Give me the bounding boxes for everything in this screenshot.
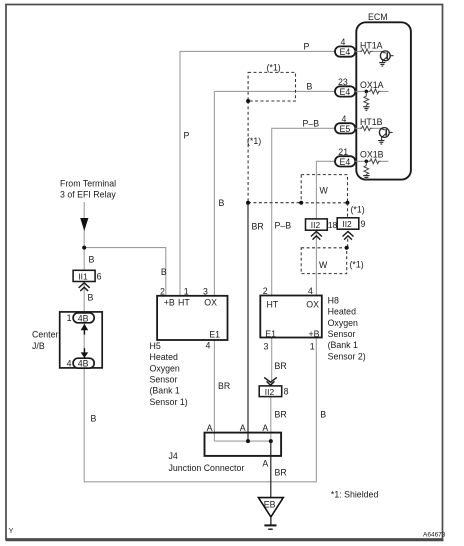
svg-text:HT1B: HT1B <box>360 117 383 127</box>
svg-text:Y: Y <box>9 526 14 535</box>
connector symbol II1 (chevrons) <box>79 283 90 291</box>
shield box W upper <box>301 175 347 203</box>
svg-text:From Terminal: From Terminal <box>60 178 116 188</box>
svg-text:Sensor: Sensor <box>150 375 178 385</box>
transistor (HT1B driver) <box>379 128 392 141</box>
svg-text:BR: BR <box>275 361 287 371</box>
svg-text:Center: Center <box>32 329 58 339</box>
connector symbol II2-8 (chevrons, pointing down) <box>264 377 277 385</box>
node shield W upper right <box>346 201 350 205</box>
svg-text:+B: +B <box>164 298 175 308</box>
svg-text:B: B <box>88 292 94 302</box>
svg-text:EB: EB <box>264 500 276 510</box>
svg-text:B: B <box>89 254 95 264</box>
svg-text:A: A <box>262 423 268 433</box>
wire OX1A internal <box>355 90 368 92</box>
svg-text:A: A <box>262 458 268 468</box>
svg-text:B: B <box>91 413 97 423</box>
wire B branch (to H5 +B) <box>84 248 166 296</box>
svg-text:B: B <box>161 267 167 277</box>
svg-text:Sensor 2): Sensor 2) <box>328 351 366 361</box>
svg-text:W: W <box>319 260 328 270</box>
wire OX1B resistor end <box>381 160 389 162</box>
svg-text:3 of EFI Relay: 3 of EFI Relay <box>60 189 116 199</box>
wire shield link (dashed horizontal) <box>248 202 301 204</box>
svg-text:4B: 4B <box>78 359 89 369</box>
wire resistor to transistor <box>373 50 382 52</box>
svg-text:1: 1 <box>310 342 315 352</box>
svg-text:HT1A: HT1A <box>360 40 383 50</box>
svg-text:BR: BR <box>275 409 287 419</box>
ground (OX1B internal) <box>363 176 369 180</box>
shield box W lower <box>301 248 347 274</box>
svg-text:23: 23 <box>338 77 348 87</box>
shield box (*1) around OX1A wire <box>248 72 295 101</box>
connector 4B pin 4 <box>67 358 95 368</box>
svg-text:4: 4 <box>342 114 347 124</box>
label H8 Heated Oxygen Sensor (Bank 1 Sensor 2) <box>328 295 366 361</box>
svg-text:BR: BR <box>275 468 287 478</box>
arrow from EFI relay <box>80 218 88 231</box>
svg-text:Sensor: Sensor <box>328 329 356 339</box>
connector II2 pin 9 <box>337 218 365 229</box>
wire B (EFI relay feed) <box>84 202 316 482</box>
svg-text:21: 21 <box>338 147 348 157</box>
svg-text:1: 1 <box>67 313 72 323</box>
svg-text:(*1): (*1) <box>267 63 281 73</box>
resistor HT1A <box>360 49 373 54</box>
svg-text:9: 9 <box>361 219 366 229</box>
connector E4 pin 21 (OX1B) <box>335 147 355 167</box>
svg-text:E1: E1 <box>209 329 220 339</box>
wire B (OX1A to H5 OX) <box>214 91 335 296</box>
svg-text:(Bank 1: (Bank 1 <box>328 340 358 350</box>
svg-text:(Bank 1: (Bank 1 <box>150 386 180 396</box>
svg-text:Heated: Heated <box>150 352 178 362</box>
svg-text:B: B <box>307 82 313 92</box>
svg-text:*1: Shielded: *1: Shielded <box>331 490 379 500</box>
ECM block <box>356 22 411 179</box>
svg-text:ECM: ECM <box>368 12 388 22</box>
svg-text:8: 8 <box>284 387 289 397</box>
wire resistor to transistor HT1B <box>373 127 381 129</box>
wire BR (II2-8 to J4 A) <box>270 397 272 442</box>
svg-text:H8: H8 <box>328 295 339 305</box>
resistor OX1A vertical <box>364 91 369 106</box>
ground EB <box>258 498 283 530</box>
svg-text:BR: BR <box>252 221 264 231</box>
svg-text:(*1): (*1) <box>351 204 365 214</box>
svg-text:BR: BR <box>218 381 230 391</box>
connector II1 pin 6 <box>73 270 102 281</box>
connector II2 pin 8 <box>259 386 288 397</box>
ground (HT1B internal) <box>378 141 384 145</box>
svg-text:Sensor 1): Sensor 1) <box>150 397 188 407</box>
arrow down (inside Center J/B) <box>81 348 89 358</box>
svg-text:2: 2 <box>160 286 165 296</box>
svg-text:OX: OX <box>306 299 319 309</box>
svg-text:(*1): (*1) <box>350 260 364 270</box>
J4 junction connector block <box>205 433 282 456</box>
node shield drain top <box>246 99 250 103</box>
svg-text:J/B: J/B <box>32 341 45 351</box>
node shield W upper left <box>299 201 303 205</box>
H5 heated oxygen sensor block <box>157 296 227 340</box>
connector E4 pin 4 (HT1A) <box>335 37 355 57</box>
transistor (HT1A driver) <box>380 51 393 63</box>
svg-text:II2: II2 <box>342 219 352 229</box>
svg-text:4: 4 <box>341 37 346 47</box>
svg-text:P–B: P–B <box>303 119 320 129</box>
svg-text:E4: E4 <box>340 87 351 97</box>
svg-text:J4: J4 <box>169 451 178 461</box>
wire shield to II2-9 (dashed) <box>347 203 349 218</box>
ground (OX1A internal) <box>363 107 369 111</box>
svg-text:2: 2 <box>263 286 268 296</box>
label H5 Heated Oxygen Sensor (Bank 1 Sensor 1) <box>150 341 188 407</box>
svg-text:P–B: P–B <box>275 220 292 230</box>
connector E5 pin 4 (HT1B) <box>335 114 355 134</box>
svg-text:B: B <box>219 198 225 208</box>
svg-text:Oxygen: Oxygen <box>328 318 358 328</box>
svg-text:Heated: Heated <box>328 307 356 317</box>
J4 internal bus wire <box>214 440 270 442</box>
svg-text:II2: II2 <box>265 387 275 397</box>
wire P-B (HT1B to H8 HT) <box>272 128 335 295</box>
svg-text:3: 3 <box>264 342 269 352</box>
svg-text:E4: E4 <box>340 157 351 167</box>
wire W (OX1B to II2-18) <box>316 161 335 219</box>
node J4 bus at output <box>269 439 273 443</box>
svg-text:A: A <box>240 423 246 433</box>
wire BR (J4 to EB ground) <box>270 441 272 498</box>
svg-text:P: P <box>304 42 310 52</box>
svg-text:HT: HT <box>178 298 190 308</box>
svg-text:A: A <box>207 423 213 433</box>
svg-text:A64673: A64673 <box>423 532 446 539</box>
resistor OX1B vertical <box>364 161 369 175</box>
resistor HT1B <box>360 126 373 131</box>
svg-text:4: 4 <box>67 359 72 369</box>
connector II2 pin 18 <box>306 219 338 230</box>
wire P (HT1A to H5 HT) <box>180 51 335 296</box>
svg-text:W: W <box>320 185 329 195</box>
node OX1A <box>365 90 369 94</box>
wire OX1B internal <box>355 160 368 162</box>
connector 4B pin 1 <box>67 313 95 323</box>
svg-text:HT: HT <box>267 299 279 309</box>
svg-text:18: 18 <box>328 220 338 230</box>
svg-text:P: P <box>184 130 190 140</box>
svg-text:II2: II2 <box>311 220 321 230</box>
connector symbol II2-18 (chevrons) <box>311 232 322 240</box>
svg-text:II1: II1 <box>78 272 88 282</box>
svg-text:E5: E5 <box>340 124 351 134</box>
svg-text:+B: +B <box>309 329 320 339</box>
svg-text:Oxygen: Oxygen <box>150 363 180 373</box>
wire BR (H8 E1 to II2-8) <box>271 338 273 386</box>
svg-text:OX1B: OX1B <box>360 150 384 160</box>
svg-text:4B: 4B <box>78 313 89 323</box>
connector symbol II2-9 (chevrons) <box>343 232 354 240</box>
svg-text:1: 1 <box>184 286 189 296</box>
svg-text:(*1): (*1) <box>247 136 261 146</box>
connector E4 pin 23 (OX1A) <box>335 77 355 97</box>
svg-text:Junction Connector: Junction Connector <box>169 463 245 473</box>
svg-text:6: 6 <box>97 271 102 281</box>
node shield W lower right <box>345 246 349 250</box>
svg-text:E4: E4 <box>340 47 351 57</box>
svg-text:H5: H5 <box>150 341 161 351</box>
wire II2-9 to lower shield (dashed) <box>347 239 349 248</box>
wire OX1A resistor end <box>381 90 389 92</box>
arrow up (inside Center J/B) <box>81 324 89 335</box>
ground (HT1A internal) <box>379 63 385 67</box>
wire W (II2-18 to H8 OX) <box>315 230 317 295</box>
svg-text:E1: E1 <box>265 329 276 339</box>
wire BR (H5 E1 to J4 A) <box>213 340 215 441</box>
wire shield drain (dashed) <box>247 101 249 203</box>
svg-text:OX: OX <box>204 298 217 308</box>
svg-text:OX1A: OX1A <box>360 80 384 90</box>
svg-text:3: 3 <box>203 286 208 296</box>
wire BR shield drain (solid) <box>247 203 249 441</box>
Center J/B block <box>60 312 102 368</box>
svg-text:4: 4 <box>308 286 313 296</box>
svg-text:B: B <box>320 409 326 419</box>
resistor OX1A horizontal <box>369 89 381 94</box>
node junction at EFI branch <box>82 246 86 250</box>
node shield link left <box>246 201 250 205</box>
resistor OX1B horizontal <box>369 159 381 164</box>
wire to HT1A resistor <box>355 50 360 52</box>
wire to HT1B resistor <box>355 127 360 129</box>
node OX1B <box>365 160 369 164</box>
node J4 bus at BR drain <box>246 439 250 443</box>
H8 heated oxygen sensor block <box>260 296 322 338</box>
svg-text:4: 4 <box>206 341 211 351</box>
